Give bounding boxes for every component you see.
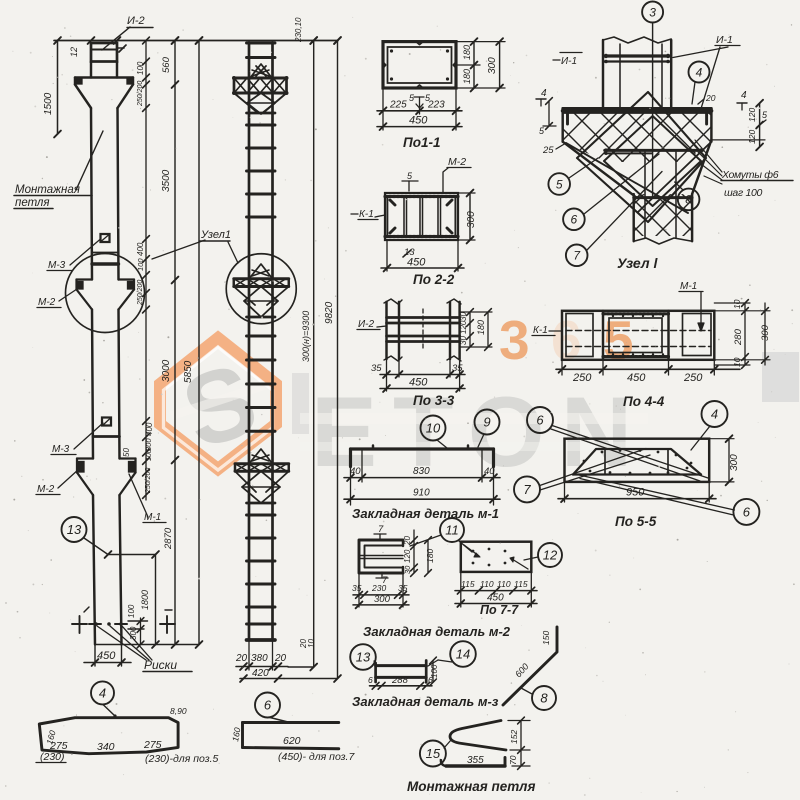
svg-text:300(н)=9300: 300(н)=9300	[301, 311, 311, 362]
callout 15	[420, 741, 446, 767]
svg-text:230,10: 230,10	[294, 17, 303, 43]
svg-text:450: 450	[97, 650, 116, 662]
svg-text:По 2-2: По 2-2	[413, 272, 455, 287]
axis cross left	[72, 623, 87, 625]
svg-text:100: 100	[146, 449, 153, 461]
right dims 30/120/30 and 180	[469, 312, 471, 347]
callout 7	[514, 476, 540, 502]
svg-text:180: 180	[462, 69, 472, 84]
svg-text:13: 13	[356, 650, 371, 665]
svg-text:223: 223	[427, 100, 445, 111]
svg-text:2870: 2870	[163, 527, 174, 550]
svg-text:6: 6	[536, 413, 544, 428]
svg-text:450: 450	[627, 372, 646, 384]
axis cross right	[160, 623, 175, 625]
svg-text:250/200: 250/200	[145, 468, 152, 494]
bottom dim 950	[564, 482, 566, 502]
svg-text:И-1: И-1	[716, 34, 733, 46]
svg-text:М-2: М-2	[37, 484, 55, 495]
X mark	[256, 66, 266, 76]
lower node truss	[249, 449, 273, 464]
embedded plate M-2 right corner	[127, 79, 133, 85]
stirrup	[387, 197, 455, 236]
right chain 300	[764, 303, 766, 365]
svg-text:300: 300	[760, 324, 771, 341]
svg-text:225: 225	[389, 100, 407, 111]
left channel	[385, 302, 387, 359]
svg-text:Риски: Риски	[144, 658, 177, 672]
callout 6 bottom	[733, 499, 759, 525]
callout 4	[702, 401, 728, 427]
callout 4	[689, 62, 710, 83]
svg-text:120: 120	[747, 108, 757, 122]
svg-text:180: 180	[462, 45, 472, 60]
bottom dims 35/450	[386, 359, 388, 391]
svg-text:450: 450	[407, 257, 426, 269]
svg-text:300: 300	[729, 454, 740, 471]
svg-text:М-3: М-3	[48, 260, 66, 271]
svg-text:Узел1: Узел1	[200, 229, 231, 241]
notches	[416, 42, 423, 45]
svg-text:И-1: И-1	[561, 56, 577, 67]
big diamond	[577, 92, 706, 222]
lower console left	[77, 457, 93, 459]
section Po5-5 outline	[565, 439, 710, 482]
callout 12	[538, 543, 562, 567]
svg-text:9820: 9820	[324, 301, 335, 324]
bar pos 8	[503, 627, 557, 705]
svg-text:950: 950	[626, 487, 645, 499]
base dimension 450	[94, 645, 96, 667]
dims 6/288/6	[370, 685, 433, 687]
section Po4-4 outline	[562, 311, 714, 360]
svg-text:250: 250	[572, 372, 592, 384]
svg-text:К-1: К-1	[533, 325, 548, 336]
bottom dims 250/450/250	[561, 360, 563, 375]
svg-text:30: 30	[459, 312, 468, 321]
svg-text:10: 10	[426, 421, 441, 436]
svg-text:Монтажная: Монтажная	[15, 184, 80, 196]
inner bars	[605, 149, 703, 152]
loop bottom leg	[446, 764, 505, 767]
svg-text:40: 40	[484, 466, 495, 477]
svg-text:4: 4	[696, 65, 703, 79]
svg-text:6: 6	[571, 213, 578, 227]
watermark seton hexagon logo	[160, 338, 276, 469]
shoulder taper	[75, 85, 91, 109]
callouts 5 6 7 8	[548, 173, 570, 195]
chamfers	[563, 142, 635, 196]
head outline	[563, 107, 712, 110]
corner bars	[390, 200, 395, 205]
callout 10	[421, 416, 446, 441]
svg-text:300: 300	[374, 594, 391, 605]
svg-text:620: 620	[283, 735, 301, 747]
svg-text:300: 300	[129, 626, 138, 640]
svg-text:70: 70	[508, 755, 518, 765]
upper shaft	[602, 40, 604, 108]
svg-text:120: 120	[403, 549, 412, 563]
top bars	[605, 54, 670, 57]
bar pos 4 outline	[39, 718, 178, 754]
svg-text:275: 275	[143, 739, 162, 751]
svg-text:4: 4	[99, 686, 106, 701]
inner verticals	[403, 197, 405, 236]
svg-text:4: 4	[541, 88, 547, 99]
svg-text:20: 20	[403, 536, 412, 546]
svg-text:40: 40	[350, 466, 361, 477]
inner verticals lower	[644, 152, 646, 238]
svg-text:3: 3	[649, 5, 656, 19]
middle node truss	[249, 264, 273, 279]
connecting plates	[387, 316, 460, 319]
middle console left	[77, 278, 93, 280]
svg-text:петля: петля	[15, 197, 50, 209]
svg-text:8: 8	[540, 691, 548, 706]
svg-text:300: 300	[144, 438, 153, 451]
rotated dims 20/120/30/180	[413, 530, 415, 573]
svg-text:М-1: М-1	[680, 281, 697, 292]
callout circle 13	[62, 517, 87, 542]
svg-text:10: 10	[732, 299, 742, 309]
svg-text:М-3: М-3	[52, 444, 70, 455]
watermark white stripes over letters	[300, 413, 648, 424]
lower console right	[120, 457, 136, 459]
dimension chain small (x146)	[145, 41, 147, 501]
rungs upper run	[247, 124, 276, 127]
svg-text:По 4-4: По 4-4	[623, 394, 665, 409]
svg-text:35: 35	[352, 583, 362, 593]
svg-text:Закладная деталь м-2: Закладная деталь м-2	[363, 624, 511, 639]
svg-text:8: 8	[685, 193, 692, 207]
svg-text:6: 6	[428, 675, 433, 685]
dimension chain x175: 560/3500/3000/2870	[174, 41, 176, 645]
svg-text:Узел l: Узел l	[617, 255, 658, 271]
leaders to Riski label	[97, 626, 146, 660]
long chain x337.5	[337, 41, 339, 679]
svg-text:340: 340	[97, 741, 115, 753]
cage bottom rung	[247, 638, 276, 642]
callout 6 top	[527, 407, 553, 433]
callout 6 detail	[255, 693, 280, 718]
svg-text:И-2: И-2	[358, 319, 374, 330]
right chain 10/280/10	[744, 303, 746, 365]
svg-text:20: 20	[274, 653, 287, 664]
dims 40/830/40 and 910	[350, 467, 352, 506]
svg-text:Закладная деталь м-1: Закладная деталь м-1	[352, 506, 499, 521]
svg-text:20: 20	[235, 653, 248, 664]
plate Po7-7	[461, 542, 532, 572]
svg-text:150: 150	[541, 631, 551, 645]
svg-text:4: 4	[711, 407, 718, 422]
svg-text:110: 110	[480, 579, 494, 589]
svg-text:115: 115	[514, 579, 528, 589]
callout 8	[532, 686, 556, 710]
svg-text:6: 6	[264, 698, 272, 713]
column shaft upper	[91, 108, 92, 280]
svg-text:6: 6	[368, 675, 373, 685]
middle bold verticals	[602, 311, 604, 360]
svg-text:100: 100	[127, 604, 136, 618]
svg-text:35: 35	[371, 363, 382, 374]
long chain x313.7	[313, 41, 315, 668]
svg-text:1500: 1500	[43, 92, 54, 115]
plate M-1	[351, 447, 494, 450]
svg-text:120: 120	[747, 130, 757, 144]
callout 11	[440, 518, 464, 542]
svg-text:110: 110	[497, 579, 511, 589]
riski marks on shaft	[89, 623, 101, 625]
C-channel	[359, 540, 403, 573]
dims below plate	[460, 572, 462, 607]
svg-text:830: 830	[413, 466, 430, 477]
svg-text:5: 5	[556, 177, 563, 191]
svg-text:380: 380	[251, 653, 268, 664]
svg-text:шаг 100: шаг 100	[724, 187, 763, 199]
svg-text:152: 152	[509, 730, 519, 744]
rungs middle run	[247, 335, 276, 338]
svg-text:Монтажная петля: Монтажная петля	[407, 779, 535, 794]
svg-text:6: 6	[743, 505, 751, 520]
inner verticals upper	[619, 44, 621, 108]
svg-text:М-2: М-2	[38, 297, 56, 308]
svg-text:По 7-7: По 7-7	[480, 603, 519, 617]
cage right rail	[271, 43, 274, 641]
svg-text:400: 400	[145, 422, 154, 436]
dims 152 and 70	[508, 720, 530, 722]
base small chain 100/300	[140, 618, 142, 645]
svg-text:13: 13	[67, 522, 82, 537]
svg-text:180: 180	[476, 320, 486, 335]
svg-text:300: 300	[466, 211, 477, 228]
svg-text:288: 288	[391, 675, 409, 686]
callout 9	[475, 410, 500, 435]
svg-text:Хомуты ф6: Хомуты ф6	[721, 169, 779, 181]
bottom baseline	[95, 644, 199, 646]
svg-text:250: 250	[683, 372, 703, 384]
right channel	[449, 302, 451, 359]
svg-text:910: 910	[413, 488, 430, 499]
section Po1-1 outline	[383, 42, 456, 88]
svg-text:По1-1: По1-1	[403, 135, 440, 150]
svg-text:250/200: 250/200	[137, 81, 144, 107]
svg-text:Закладная деталь м-з: Закладная деталь м-з	[352, 694, 499, 709]
dim 225/225	[382, 88, 384, 130]
svg-text:450: 450	[487, 593, 504, 604]
loop hairpin	[450, 721, 506, 751]
svg-text:230: 230	[371, 583, 386, 593]
svg-text:250/200: 250/200	[137, 280, 144, 306]
svg-text:М-2: М-2	[448, 156, 466, 168]
svg-text:9: 9	[483, 415, 490, 430]
dimension chain x199: 5850	[198, 41, 200, 645]
head lattice below	[234, 93, 258, 113]
dims below channel 35/230/35	[358, 573, 360, 607]
svg-text:8,90: 8,90	[170, 706, 187, 716]
column neck	[90, 62, 92, 78]
svg-text:5850: 5850	[183, 360, 194, 383]
middle hatch bands	[603, 312, 669, 315]
top shoulder (console)	[75, 76, 133, 78]
svg-text:450: 450	[409, 377, 428, 389]
svg-text:14: 14	[456, 647, 470, 662]
svg-text:И-2: И-2	[127, 15, 145, 27]
plate line across shaft lower	[93, 435, 120, 438]
svg-text:450: 450	[409, 115, 428, 127]
rungs lower run	[247, 514, 276, 517]
svg-text:50: 50	[122, 448, 131, 457]
svg-text:К-1: К-1	[359, 209, 374, 220]
svg-text:20: 20	[705, 93, 716, 103]
svg-text:100: 100	[136, 61, 145, 75]
svg-text:12: 12	[543, 548, 558, 563]
plate line across shaft	[92, 252, 119, 254]
svg-text:560: 560	[161, 56, 172, 73]
right dim 300	[728, 439, 730, 482]
svg-text:(230)-для поз.5: (230)-для поз.5	[145, 753, 219, 765]
column cap	[91, 43, 117, 62]
middle stirrup	[609, 318, 662, 353]
embedded plate M-3 upper square	[101, 234, 110, 242]
dimension 1500 vertical	[57, 41, 59, 135]
svg-text:355: 355	[467, 755, 484, 766]
break line top	[603, 37, 671, 43]
bottom dims 20/380/20 and 420	[248, 640, 250, 670]
svg-text:3: 3	[499, 309, 530, 371]
dim 100 rotated	[432, 661, 434, 683]
svg-text:280: 280	[733, 328, 744, 346]
callout 4 detail	[91, 681, 114, 704]
svg-text:35: 35	[398, 583, 408, 593]
head peak above	[250, 64, 272, 78]
middle console right	[119, 278, 135, 280]
callout 3	[642, 2, 663, 23]
svg-text:1800: 1800	[140, 590, 150, 610]
column shaft middle	[92, 310, 93, 459]
svg-text:400: 400	[136, 242, 145, 256]
right dims 180/180/300	[473, 42, 475, 88]
svg-text:По 3-3: По 3-3	[413, 393, 455, 408]
weld tick at cap	[119, 45, 126, 52]
lower shaft	[632, 194, 634, 241]
top dimension line	[54, 40, 338, 42]
svg-text:7: 7	[523, 482, 531, 497]
svg-text:100: 100	[136, 258, 145, 271]
column shaft bottom	[93, 495, 95, 645]
dimension chain 1800	[155, 555, 157, 645]
svg-text:120: 120	[459, 320, 468, 334]
dim 450	[386, 240, 388, 271]
svg-text:3500: 3500	[161, 169, 172, 192]
svg-text:35: 35	[452, 363, 463, 374]
right dim 300	[469, 193, 471, 240]
dim 450	[377, 126, 462, 128]
svg-text:По 5-5: По 5-5	[615, 514, 657, 529]
svg-text:30: 30	[403, 565, 412, 574]
svg-text:25: 25	[542, 145, 554, 156]
section Po2-2 outline	[385, 193, 458, 240]
detail circle on middle node	[66, 254, 145, 333]
svg-text:30: 30	[459, 336, 468, 345]
svg-text:180: 180	[425, 549, 435, 563]
break line bottom	[634, 238, 692, 244]
callout 13	[350, 644, 376, 670]
svg-text:(230): (230)	[40, 751, 65, 763]
top rungs	[247, 42, 276, 45]
callout 14	[450, 641, 476, 667]
embedded plate M-2 left corner	[76, 79, 83, 85]
hatched top/bottom bands	[385, 195, 458, 198]
svg-text:10: 10	[732, 357, 742, 367]
svg-text:3000: 3000	[161, 359, 172, 382]
detail circle middle node	[226, 254, 296, 324]
svg-text:15: 15	[426, 746, 441, 761]
svg-text:115: 115	[461, 579, 475, 589]
center line	[652, 23, 654, 199]
leaders	[553, 426, 709, 478]
right cell	[683, 314, 712, 356]
stirrup	[388, 47, 452, 83]
svg-text:(450)- для поз.7: (450)- для поз.7	[278, 751, 355, 763]
embedded plate M-3 lower square	[102, 418, 111, 426]
svg-text:420: 420	[252, 668, 269, 679]
long cross diagonals	[566, 143, 688, 213]
bent bars bundle	[573, 449, 701, 475]
svg-text:300: 300	[487, 57, 498, 74]
dashed anchor lines	[566, 330, 711, 332]
svg-text:11: 11	[445, 523, 459, 538]
cage left rail	[248, 43, 251, 641]
bar pos 6	[243, 721, 339, 724]
head assembly top (truss)	[234, 77, 287, 80]
left cell	[566, 314, 593, 357]
svg-text:4: 4	[741, 90, 747, 101]
bar M-3	[376, 664, 427, 667]
svg-text:10: 10	[307, 639, 316, 648]
